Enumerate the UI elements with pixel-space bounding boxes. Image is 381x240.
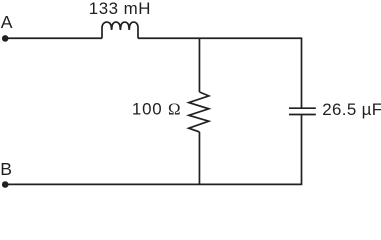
wire bottom segment from node B to bottom-right corner and capacitor bottom lead xyxy=(5,115,301,185)
wire top segment from inductor to top-right corner and right vertical down to capacitor xyxy=(138,38,302,108)
capacitor C1 top plate xyxy=(289,107,316,109)
svg-text:B: B xyxy=(0,159,12,179)
wire top-left segment from node A to inductor xyxy=(5,37,102,39)
svg-text:26.5 µF: 26.5 µF xyxy=(322,100,381,119)
wire resistor top lead xyxy=(198,38,200,92)
terminal dot A xyxy=(2,35,9,42)
wire resistor bottom lead xyxy=(198,132,200,185)
svg-text:100 Ω: 100 Ω xyxy=(132,100,181,119)
capacitor C1 bottom plate xyxy=(289,114,316,116)
svg-text:A: A xyxy=(1,12,13,32)
terminal dot B xyxy=(2,181,9,188)
inductor L1 133 mH xyxy=(102,22,138,38)
svg-text:133 mH: 133 mH xyxy=(89,0,151,18)
resistor R1 100 ohm zigzag xyxy=(189,92,209,132)
